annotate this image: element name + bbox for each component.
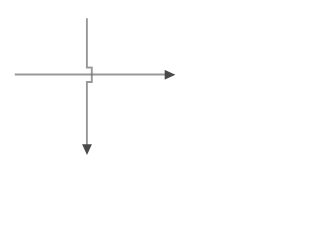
wire vertical with jog [87,18,92,144]
arrowhead down [82,144,92,155]
arrowhead right [165,70,176,80]
wire horizontal [15,74,165,76]
